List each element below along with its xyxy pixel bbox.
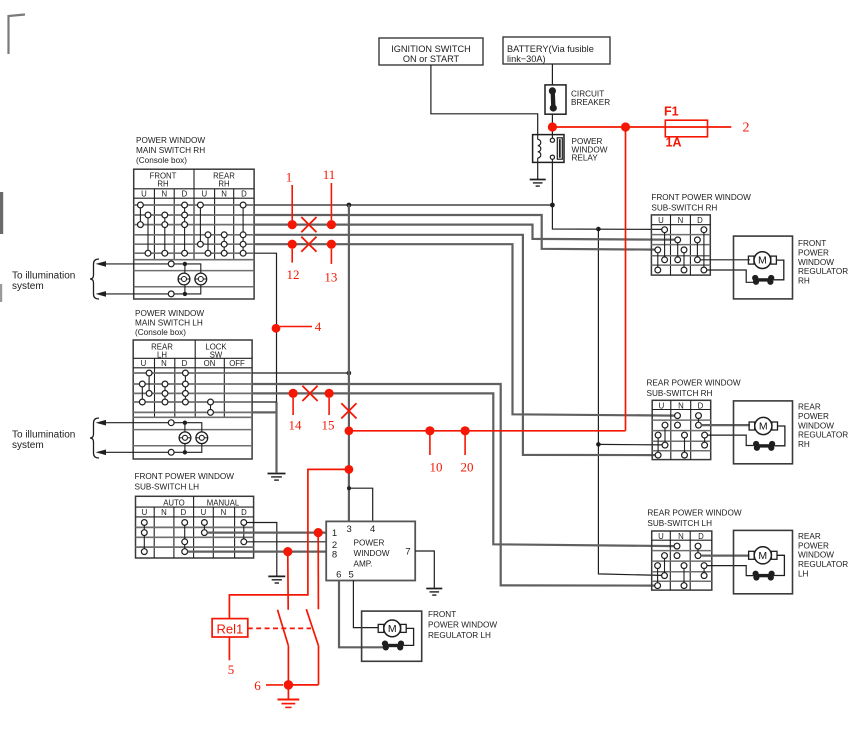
svg-text:2: 2 (743, 121, 750, 136)
svg-text:POWER: POWER (354, 539, 385, 548)
svg-text:link−30A): link−30A) (507, 54, 546, 64)
svg-text:REAR POWER WINDOW: REAR POWER WINDOW (647, 379, 741, 388)
svg-text:REAR: REAR (798, 532, 821, 541)
svg-text:(Console box): (Console box) (136, 156, 187, 165)
svg-text:POWER: POWER (798, 248, 829, 257)
svg-text:U: U (659, 401, 665, 410)
svg-text:WINDOW: WINDOW (798, 421, 834, 430)
svg-text:SUB-SWITCH RH: SUB-SWITCH RH (647, 389, 713, 398)
svg-text:POWER: POWER (798, 412, 829, 421)
svg-text:FRONT: FRONT (798, 239, 826, 248)
svg-text:MANUAL: MANUAL (207, 498, 240, 507)
svg-text:F1: F1 (664, 104, 679, 118)
svg-text:D: D (182, 190, 188, 199)
svg-text:U: U (141, 359, 147, 368)
svg-text:N: N (221, 508, 227, 517)
svg-text:D: D (241, 508, 247, 517)
svg-text:13: 13 (324, 269, 337, 284)
svg-text:N: N (221, 190, 227, 199)
svg-text:POWER: POWER (798, 541, 829, 550)
svg-text:6: 6 (254, 678, 261, 693)
svg-text:10: 10 (430, 460, 443, 475)
svg-text:BREAKER: BREAKER (571, 98, 610, 107)
svg-text:WINDOW: WINDOW (798, 551, 834, 560)
svg-text:20: 20 (461, 460, 474, 475)
svg-text:WINDOW: WINDOW (798, 258, 834, 267)
svg-text:MAIN SWITCH LH: MAIN SWITCH LH (135, 319, 203, 328)
svg-text:WINDOW: WINDOW (354, 549, 390, 558)
svg-text:M: M (759, 421, 768, 433)
svg-text:14: 14 (289, 418, 303, 433)
svg-text:To illumination: To illumination (12, 430, 75, 441)
svg-text:N: N (678, 216, 684, 225)
svg-text:Rel1: Rel1 (217, 621, 244, 636)
svg-text:5: 5 (349, 570, 354, 581)
svg-text:D: D (182, 359, 188, 368)
svg-text:FRONT POWER WINDOW: FRONT POWER WINDOW (651, 193, 751, 202)
svg-text:11: 11 (323, 167, 336, 182)
svg-text:BATTERY(Via fusible: BATTERY(Via fusible (507, 44, 594, 54)
svg-text:D: D (697, 216, 703, 225)
svg-text:OFF: OFF (229, 359, 245, 368)
svg-text:M: M (388, 623, 397, 635)
svg-text:15: 15 (322, 418, 335, 433)
svg-text:1A: 1A (666, 135, 682, 149)
svg-text:REGULATOR: REGULATOR (798, 560, 848, 569)
svg-text:MAIN SWITCH RH: MAIN SWITCH RH (136, 146, 205, 155)
svg-text:7: 7 (405, 547, 410, 558)
svg-text:M: M (758, 255, 767, 267)
svg-text:SUB-SWITCH LH: SUB-SWITCH LH (647, 519, 712, 528)
svg-text:SUB-SWITCH LH: SUB-SWITCH LH (135, 482, 200, 491)
svg-text:1: 1 (286, 169, 293, 184)
svg-text:6: 6 (336, 570, 341, 581)
svg-text:4: 4 (315, 319, 322, 334)
svg-text:system: system (12, 440, 44, 451)
svg-text:RH: RH (798, 277, 810, 286)
svg-text:4: 4 (370, 524, 375, 535)
svg-text:REAR: REAR (798, 403, 821, 412)
svg-text:N: N (678, 401, 684, 410)
svg-text:REGULATOR: REGULATOR (798, 431, 848, 440)
svg-text:POWER WINDOW: POWER WINDOW (136, 136, 205, 145)
svg-text:RH: RH (798, 440, 810, 449)
svg-text:POWER WINDOW: POWER WINDOW (135, 309, 204, 318)
svg-text:D: D (181, 508, 187, 517)
svg-text:REGULATOR: REGULATOR (798, 267, 848, 276)
svg-text:U: U (201, 508, 207, 517)
svg-text:POWER WINDOW: POWER WINDOW (428, 621, 497, 630)
svg-text:M: M (758, 550, 767, 562)
svg-text:3: 3 (346, 524, 351, 535)
svg-text:D: D (241, 190, 247, 199)
svg-text:AMP.: AMP. (354, 560, 373, 569)
svg-text:(Console box): (Console box) (135, 328, 186, 337)
svg-text:RELAY: RELAY (572, 154, 599, 163)
svg-text:AUTO: AUTO (163, 498, 185, 507)
svg-text:RH: RH (218, 180, 229, 189)
svg-text:N: N (161, 190, 167, 199)
svg-text:REGULATOR LH: REGULATOR LH (428, 631, 491, 640)
svg-text:To illumination: To illumination (12, 271, 75, 282)
svg-text:1: 1 (332, 528, 337, 539)
svg-text:8: 8 (332, 550, 337, 561)
svg-text:IGNITION SWITCH: IGNITION SWITCH (391, 44, 471, 54)
svg-text:FRONT POWER WINDOW: FRONT POWER WINDOW (135, 472, 235, 481)
svg-text:ON or START: ON or START (403, 54, 460, 64)
svg-text:U: U (658, 216, 664, 225)
svg-text:U: U (142, 508, 148, 517)
svg-text:SUB-SWITCH RH: SUB-SWITCH RH (651, 203, 717, 212)
svg-text:N: N (161, 359, 167, 368)
svg-text:U: U (201, 190, 207, 199)
svg-text:RH: RH (157, 180, 168, 189)
svg-text:LH: LH (798, 570, 809, 579)
svg-text:D: D (698, 401, 704, 410)
svg-text:REAR POWER WINDOW: REAR POWER WINDOW (647, 509, 741, 518)
svg-text:12: 12 (287, 267, 300, 282)
svg-text:5: 5 (228, 662, 235, 677)
svg-text:ON: ON (204, 359, 216, 368)
svg-text:U: U (141, 190, 147, 199)
svg-text:system: system (12, 281, 44, 292)
svg-text:FRONT: FRONT (428, 610, 456, 619)
svg-text:N: N (161, 508, 167, 517)
